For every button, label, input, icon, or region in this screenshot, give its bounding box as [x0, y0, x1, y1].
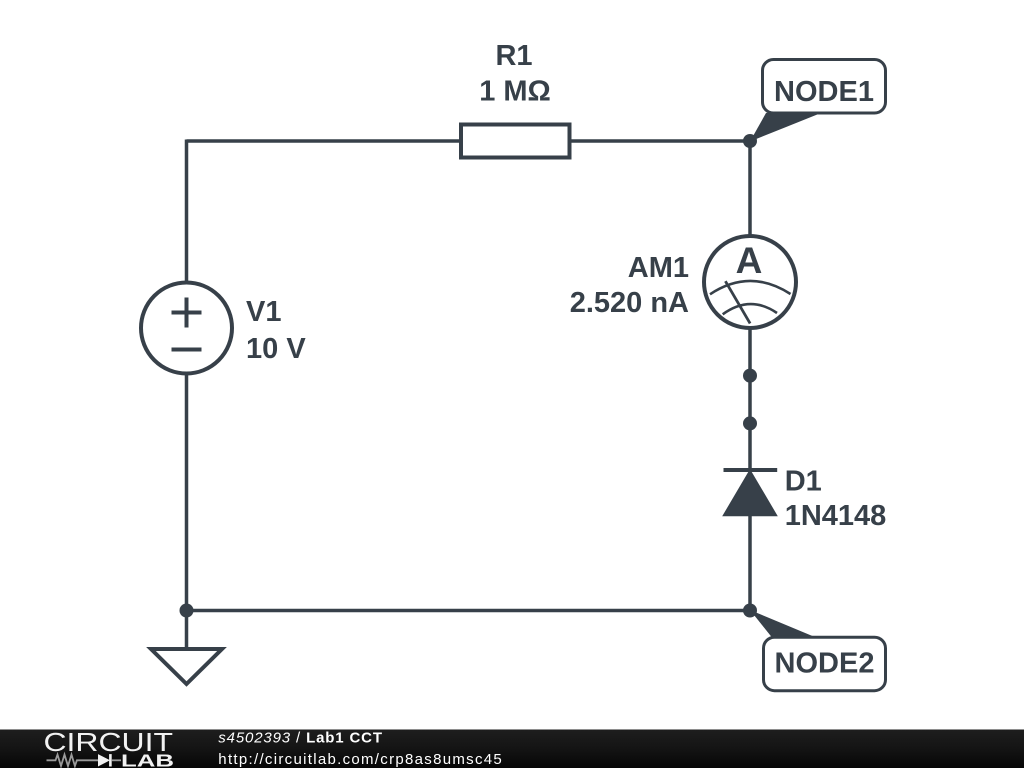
wire: right vertical from AM1 bottom pin to D1 cathode: [748, 328, 752, 470]
svg-text:V1: V1: [246, 296, 281, 328]
junction dot at NODE2 (D1/bottom wire): [743, 604, 757, 618]
node NODE2 flag tail: [750, 610, 816, 638]
ammeter AM1: [704, 236, 796, 328]
junction dot at ground node: [180, 604, 194, 618]
resistor R1: [461, 125, 570, 158]
voltage source V1: [141, 283, 232, 374]
junction dot between AM1 and D1 (lower): [743, 416, 757, 430]
ground: [151, 649, 222, 684]
footer bar: [0, 730, 1024, 768]
svg-text:A: A: [736, 240, 763, 281]
svg-text:2.520 nA: 2.520 nA: [570, 287, 689, 319]
svg-text:http://circuitlab.com/crp8as8u: http://circuitlab.com/crp8as8umsc45: [218, 751, 503, 768]
junction dot between AM1 and D1 (upper): [743, 369, 757, 383]
CircuitLab logo resistor zigzag wire: [47, 755, 99, 766]
svg-text:AM1: AM1: [628, 252, 689, 284]
wire: bottom segment from ground node to NODE2 junction: [187, 609, 751, 613]
svg-text:10 V: 10 V: [246, 333, 306, 365]
svg-text:NODE2: NODE2: [775, 648, 875, 680]
svg-text:1 MΩ: 1 MΩ: [479, 76, 551, 108]
node NODE2: [764, 637, 886, 691]
svg-text:D1: D1: [785, 465, 822, 497]
junction dot at NODE1 (R1/AM1): [743, 134, 757, 148]
diode D1: [724, 470, 778, 516]
node NODE1 flag tail: [750, 113, 821, 142]
svg-text:s4502393 / Lab1 CCT: s4502393 / Lab1 CCT: [218, 730, 383, 747]
wire: top segment from V1 branch to R1 left pin: [187, 139, 462, 143]
svg-text:NODE1: NODE1: [774, 76, 874, 108]
wire: top segment from R1 right pin to NODE1 junction: [570, 139, 751, 143]
node NODE1: [763, 60, 886, 114]
svg-text:1N4148: 1N4148: [785, 500, 887, 532]
svg-text:R1: R1: [495, 40, 532, 72]
svg-text:LAB: LAB: [121, 750, 174, 768]
wire: left vertical from V1 minus pin to ground node: [185, 372, 189, 649]
CircuitLab logo diode symbol: [98, 754, 110, 766]
wire: right vertical from NODE1 junction to AM1 top pin: [748, 140, 752, 237]
wire: left vertical from top corner down to V1 plus pin: [185, 140, 189, 285]
wire: right vertical from D1 anode to NODE2 junction: [748, 514, 752, 611]
